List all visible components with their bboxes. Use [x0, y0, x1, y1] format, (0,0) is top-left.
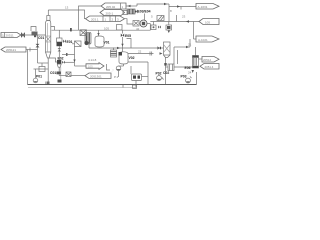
wire V01 bottom header: [89, 47, 123, 49]
svg-text:C01: C01: [38, 36, 44, 40]
wire V02 feed: [122, 30, 124, 33]
svg-text:42: 42: [136, 27, 140, 31]
pot with pump left of V01: [84, 33, 91, 49]
svg-text:E03/E04: E03/E04: [138, 10, 151, 14]
svg-text:A-1031: A-1031: [198, 5, 208, 9]
condenser E03: [127, 9, 138, 14]
wire blower outlet drop: [149, 24, 151, 31]
wire reflux loop to C02: [174, 39, 192, 64]
pump P03: [181, 75, 192, 83]
svg-text:P03: P03: [181, 75, 187, 79]
wire flag T3 lead: [48, 10, 85, 19]
wire long mid header: [52, 29, 151, 31]
svg-text:20514: 20514: [203, 58, 211, 62]
wire down to F7: [193, 22, 195, 40]
wire T1 to riser with arrow: [126, 5, 137, 7]
svg-text:C01: C01: [50, 71, 56, 75]
flow arrow marker mid: [86, 63, 104, 70]
flag F10 bottom out: [85, 73, 111, 79]
svg-text:..*: ..*: [111, 69, 113, 73]
svg-text:21: 21: [188, 43, 192, 47]
down arrow near S1 bottom: [188, 70, 194, 75]
flag T2 (middle connector): [100, 10, 125, 16]
valve E05 on V02 feed: [121, 34, 131, 49]
svg-text:205121: 205121: [6, 48, 16, 52]
svg-text:4.14.8: 4.14.8: [88, 58, 97, 62]
valve on riser: [36, 44, 39, 47]
svg-text:P.1: P.1: [114, 75, 118, 79]
drum V02: [119, 52, 129, 64]
flag F7 right out: [196, 36, 219, 42]
wire T1 drop to header: [79, 6, 102, 30]
hatch tick on bottom header: [46, 82, 49, 85]
flag T1 (top out): [101, 3, 126, 9]
svg-text:2051301: 2051301: [90, 75, 102, 79]
node junction left riser: [37, 35, 39, 63]
wire header to C02 upper: [123, 47, 164, 49]
column C01: [46, 16, 58, 85]
flag F8 right out: [199, 57, 220, 63]
svg-text:24: 24: [188, 71, 192, 75]
svg-text:20511: 20511: [6, 34, 14, 38]
svg-text:E06: E06: [185, 66, 191, 70]
valve station on bottom flag line: [59, 72, 85, 77]
flag F6 right out: [199, 19, 219, 25]
instrument box bottom center: [114, 62, 148, 85]
exchanger E04: [111, 48, 117, 58]
svg-text:1: 1: [2, 34, 4, 38]
svg-text:V01: V01: [104, 41, 110, 45]
wire L-drop to bottom flag: [107, 64, 111, 70]
E02 stack: [57, 57, 75, 80]
wire feed into C02: [160, 52, 163, 54]
svg-text:C02: C02: [163, 71, 169, 75]
flag F9 right in: [200, 64, 219, 70]
svg-text:105: 105: [88, 65, 93, 69]
wire instrument drop: [62, 47, 86, 67]
E01 stack: [57, 30, 73, 60]
inline instrument tick: [34, 33, 36, 37]
box with X below header: [80, 30, 87, 36]
wire drain line: [38, 62, 49, 64]
blower V03 row: [125, 14, 151, 28]
valve on feed line: [22, 33, 25, 37]
E pipe bottom cap: [58, 80, 62, 83]
wire mid-right header to flag F6: [150, 21, 199, 23]
svg-text:2051.4: 2051.4: [205, 65, 214, 69]
wire top header: [137, 3, 196, 22]
instrument box above P01: [34, 63, 49, 72]
hatched box above header: [157, 16, 164, 21]
svg-text:E05: E05: [125, 34, 131, 38]
small box right of T2: [123, 11, 128, 15]
wire bottom header: [27, 50, 29, 85]
svg-text:A-1021: A-1021: [198, 38, 208, 42]
svg-text:P01: P01: [36, 75, 42, 79]
svg-text:205.02: 205.02: [106, 5, 116, 9]
instrument box on header: [117, 25, 123, 31]
flag feed stream F1 (left input): [1, 33, 21, 38]
svg-text:P02: P02: [156, 72, 162, 76]
svg-text:23: 23: [182, 15, 186, 19]
instrument boxes below header: [151, 15, 177, 34]
seal pot loop: [31, 27, 36, 32]
wire overhead line 13: [47, 10, 49, 16]
flag T3 (bottom connector): [86, 16, 125, 22]
flag F5 A-101 top right: [196, 4, 219, 10]
svg-text:V02: V02: [129, 56, 135, 60]
svg-text:13: 13: [65, 6, 69, 10]
wire drain sub-line: [28, 81, 137, 89]
wire feed to column: [25, 34, 46, 36]
pump P01: [33, 69, 42, 83]
svg-text:203.1: 203.1: [91, 18, 99, 22]
box T1 right of C02: [166, 64, 193, 71]
wire side nozzle: [51, 27, 55, 31]
wire right downcomer: [196, 72, 198, 85]
flag F2 left out: [1, 47, 38, 52]
small vessel S1: [193, 47, 199, 68]
crossed box right of E01: [72, 41, 81, 47]
wire V02 to C02: [128, 53, 154, 55]
pump P02: [156, 72, 164, 81]
svg-text:105: 105: [205, 20, 210, 24]
svg-text:205-1: 205-1: [106, 11, 114, 15]
svg-text:22: 22: [138, 50, 142, 54]
svg-text:E01: E01: [67, 40, 73, 44]
svg-text:105: 105: [104, 26, 109, 30]
drum V01: [95, 30, 104, 47]
pump under V02: [116, 62, 148, 77]
column C02: [164, 42, 171, 85]
